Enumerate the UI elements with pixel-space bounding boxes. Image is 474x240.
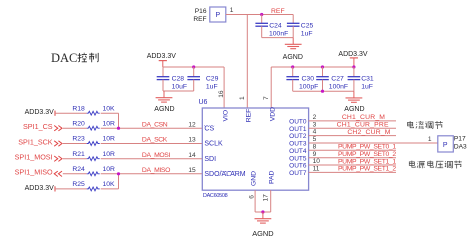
svg-text:PUMP_PW_SET1_1: PUMP_PW_SET1_1 [338, 158, 396, 165]
svg-text:SPI1_MOSI: SPI1_MOSI [15, 153, 53, 162]
svg-text:CH2_CUR_M: CH2_CUR_M [347, 129, 390, 136]
svg-text:OUT7: OUT7 [289, 170, 307, 177]
svg-text:6: 6 [249, 195, 256, 199]
annotation 电源电压调节 [409, 161, 461, 169]
svg-text:PUMP_PW_SET0_2: PUMP_PW_SET0_2 [338, 151, 396, 158]
wire pull-up R18 to DA_CSN node [118, 113, 120, 128]
svg-text:AGND: AGND [283, 54, 303, 61]
svg-text:GND: GND [251, 171, 258, 186]
node junction dots on VDD rail [291, 65, 294, 68]
svg-text:SCLK: SCLK [204, 141, 223, 148]
svg-text:2: 2 [313, 114, 317, 121]
svg-text:SPI1_MISO: SPI1_MISO [15, 168, 53, 177]
svg-text:14: 14 [188, 152, 196, 159]
svg-text:C31: C31 [361, 76, 374, 83]
annotation 电流调节 [408, 121, 443, 129]
wire DA_SCK to U6 [101, 143, 203, 145]
svg-text:SDO/ALARM: SDO/ALARM [204, 171, 245, 178]
svg-text:9: 9 [313, 151, 317, 158]
port P16 box [210, 7, 226, 22]
svg-text:SDI: SDI [204, 156, 216, 163]
svg-text:DA_MOSI: DA_MOSI [142, 152, 171, 159]
svg-text:AGND: AGND [154, 106, 174, 113]
svg-text:R23: R23 [72, 136, 85, 143]
wire [63, 158, 87, 160]
wire PUMP_PW_SET0_1 [309, 149, 396, 151]
svg-text:REF: REF [193, 16, 206, 23]
wire DA_CSN to U6 [101, 127, 203, 129]
svg-text:OUT5: OUT5 [289, 155, 307, 162]
wire PAD pin down [270, 190, 272, 212]
svg-text:100nF: 100nF [329, 84, 348, 91]
svg-text:R20: R20 [72, 120, 85, 127]
wire [63, 173, 87, 175]
svg-text:C29: C29 [206, 76, 219, 83]
svg-text:C24: C24 [269, 23, 282, 30]
sheet entry chevron SPI1_CS [54, 126, 58, 131]
capacitor C31 [353, 67, 355, 77]
svg-text:U6: U6 [199, 99, 208, 106]
svg-text:CH1_CUR_PRE: CH1_CUR_PRE [337, 122, 389, 129]
wire bottom rail C24-C25 [262, 37, 294, 39]
sheet entry chevron SPI1_SCK [54, 141, 58, 146]
wire VIO vertical drop to pin 16 [223, 67, 225, 108]
svg-text:13: 13 [188, 137, 196, 144]
wire DA_MISO to U6 [101, 173, 203, 175]
wire bottom rail C30-C27-C31 [293, 90, 354, 92]
svg-text:1uF: 1uF [301, 30, 313, 37]
svg-text:DA3: DA3 [454, 143, 467, 150]
resistor R23 10R [87, 142, 100, 146]
svg-text:R18: R18 [72, 105, 85, 112]
svg-text:1: 1 [230, 7, 234, 14]
svg-text:10R: 10R [103, 120, 116, 127]
wire REF vertical drop to U6 REF pin [246, 15, 248, 109]
svg-text:10K: 10K [103, 105, 116, 112]
svg-text:17: 17 [263, 194, 270, 202]
wire GND pin down [254, 190, 256, 212]
wire PUMP_PW_SET1_1 [309, 164, 396, 166]
node junction dot [261, 210, 264, 213]
svg-text:P16: P16 [195, 8, 207, 15]
node REF junction dot [260, 13, 263, 16]
capacitor C30 [292, 67, 294, 77]
svg-text:R24: R24 [72, 166, 85, 173]
svg-text:DAC60508: DAC60508 [203, 193, 228, 199]
svg-text:1: 1 [239, 96, 246, 100]
svg-text:DA_CSN: DA_CSN [142, 121, 168, 128]
power port tick [54, 186, 56, 191]
svg-text:PUMP_PW_SET0_1: PUMP_PW_SET0_1 [338, 144, 396, 151]
svg-text:5: 5 [313, 136, 317, 143]
svg-text:VDD: VDD [269, 107, 276, 121]
capacitor C28 [162, 67, 164, 77]
wire [63, 127, 87, 129]
svg-text:C28: C28 [172, 76, 185, 83]
wire [63, 143, 87, 145]
node junction dot C27 bottom [321, 90, 324, 93]
svg-text:R25: R25 [72, 181, 85, 188]
svg-text:ADD3.3V: ADD3.3V [338, 51, 368, 58]
wire VIO top rail [163, 66, 224, 68]
wire bottom rail C28-C29 [163, 90, 194, 92]
svg-text:DA_SCK: DA_SCK [142, 137, 168, 144]
svg-text:OUT2: OUT2 [289, 133, 307, 140]
svg-text:P: P [443, 142, 448, 149]
svg-text:4: 4 [313, 129, 317, 136]
svg-text:100nF: 100nF [269, 30, 288, 37]
svg-text:P: P [215, 12, 220, 19]
wire to pull-up node [101, 188, 119, 190]
svg-text:C30: C30 [302, 76, 315, 83]
wire CH1_CUR_M [309, 120, 396, 122]
svg-text:100pF: 100pF [299, 84, 318, 91]
svg-text:8: 8 [313, 143, 317, 150]
svg-text:C25: C25 [301, 23, 314, 30]
svg-text:10R: 10R [103, 166, 116, 173]
capacitor C27 [322, 67, 324, 77]
svg-text:ADD3.3V: ADD3.3V [25, 185, 55, 192]
svg-text:OUT4: OUT4 [289, 148, 307, 155]
svg-text:CH1_CUR_M: CH1_CUR_M [342, 114, 385, 121]
resistor R18 10K [87, 111, 100, 115]
svg-text:VIO: VIO [222, 110, 229, 122]
svg-text:AGND: AGND [344, 106, 364, 113]
svg-text:OUT6: OUT6 [289, 163, 307, 170]
svg-text:REF: REF [245, 109, 252, 123]
svg-text:7: 7 [263, 96, 270, 100]
node junction dot on DA_CSN [117, 127, 120, 130]
svg-text:SPI1_SCK: SPI1_SCK [18, 137, 53, 146]
ground AGND under C31 [353, 91, 355, 98]
svg-text:DAC: DAC [51, 51, 77, 65]
wire PUMP_PW_SET0_2 [309, 157, 396, 159]
ground AGND below U6 [262, 212, 264, 219]
svg-text:SPI1_CS: SPI1_CS [23, 122, 53, 131]
wire CH1_CUR_PRE [309, 127, 396, 129]
wire OUT3 to port P17 [309, 142, 438, 144]
resistor R25 10K [87, 187, 100, 191]
capacitor C25 [292, 15, 294, 24]
wire to pull-up node [101, 112, 119, 114]
svg-text:R21: R21 [72, 151, 85, 158]
svg-text:16: 16 [218, 90, 225, 98]
IC U6 DAC60508 body [202, 108, 308, 190]
wire [55, 112, 87, 114]
resistor R20 10R [87, 126, 100, 130]
svg-text:P17: P17 [454, 136, 466, 143]
resistor R24 10R [87, 172, 100, 176]
svg-text:1uF: 1uF [206, 84, 218, 91]
ground AGND under C28 [163, 91, 165, 98]
wire [55, 188, 87, 190]
node junction dot C29 top [192, 65, 195, 68]
svg-text:PUMP_PW_SET1_2: PUMP_PW_SET1_2 [338, 166, 396, 173]
sheet entry chevron SPI1_MOSI [54, 156, 58, 161]
svg-text:3: 3 [313, 121, 317, 128]
power port tick [54, 111, 56, 116]
wire pull-up R25 to DA_MISO node [118, 174, 120, 189]
svg-text:10R: 10R [103, 136, 116, 143]
svg-text:1uF: 1uF [361, 84, 373, 91]
svg-text:ADD3.3V: ADD3.3V [25, 109, 55, 116]
svg-text:OUT0: OUT0 [289, 119, 307, 126]
wire joining GND/PAD [255, 211, 271, 213]
wire VDD top rail [271, 66, 354, 68]
svg-text:C27: C27 [331, 76, 344, 83]
resistor R21 10R [87, 157, 100, 161]
svg-text:1: 1 [428, 136, 432, 143]
svg-text:ADD3.3V: ADD3.3V [147, 53, 177, 60]
capacitor C24 [261, 15, 263, 24]
sheet entry chevron SPI1_MISO [54, 171, 58, 176]
svg-text:10uF: 10uF [172, 84, 188, 91]
wire PUMP_PW_SET1_2 [309, 171, 396, 173]
wire VDD vertical drop to pin 7 [270, 67, 272, 108]
node junction dot on DA_MISO [117, 172, 120, 175]
svg-text:CS: CS [204, 125, 214, 132]
ground AGND under C24/C25 [292, 38, 294, 45]
svg-text:DA_MISO: DA_MISO [142, 167, 170, 174]
svg-text:12: 12 [188, 121, 196, 128]
svg-text:11: 11 [313, 166, 320, 173]
port P17 box [438, 136, 454, 152]
svg-text:PAD: PAD [268, 170, 275, 184]
svg-text:10: 10 [313, 158, 321, 165]
wire REF horizontal from P16 pin 1 [226, 14, 293, 16]
svg-text:10K: 10K [103, 181, 116, 188]
svg-text:15: 15 [188, 167, 196, 174]
capacitor C29 [193, 67, 195, 77]
svg-text:OUT1: OUT1 [289, 126, 307, 133]
svg-text:REF: REF [271, 8, 285, 15]
svg-text:AGND: AGND [252, 229, 273, 238]
svg-text:10R: 10R [103, 151, 116, 158]
svg-text:OUT3: OUT3 [289, 141, 307, 148]
wire DA_MOSI to U6 [101, 158, 203, 160]
wire CH2_CUR_M [309, 135, 396, 137]
